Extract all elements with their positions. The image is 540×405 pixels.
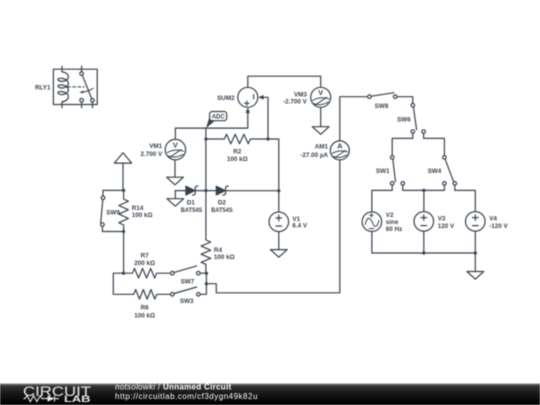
wire step to AM1 (206, 160, 339, 293)
voltmeter VM3 (311, 87, 331, 107)
svg-text:SW4: SW4 (428, 168, 442, 175)
svg-text:ADC: ADC (212, 114, 226, 120)
svg-text:BAT54S: BAT54S (211, 207, 233, 214)
svg-text:-120 V: -120 V (489, 223, 508, 230)
resistor R2 (206, 134, 279, 212)
svg-text:2.700 V: 2.700 V (140, 151, 163, 158)
wire SW6 right throw to SW4 (424, 133, 445, 155)
svg-text:A: A (337, 142, 343, 151)
wire SW4 left throw to node (424, 185, 445, 190)
svg-text:D1: D1 (187, 199, 196, 206)
wire flag to node (122, 163, 124, 190)
wire node to SW9 (103, 190, 124, 196)
wire SW8 to SW6 (397, 97, 413, 104)
junction dots (122, 137, 477, 285)
resistor R6 (134, 290, 171, 300)
source V2 (sine) (362, 212, 382, 232)
wire SW1 right throw to node (403, 185, 424, 190)
summer SUM2 (238, 87, 258, 107)
wire R2 right node up to SUM2 minus input (263, 97, 268, 139)
source V1 (269, 212, 289, 232)
svg-text:LAB: LAB (64, 394, 91, 405)
diode D2 (schottky) (206, 186, 279, 195)
source V4 (466, 212, 486, 232)
resistor R14 (119, 190, 129, 231)
logo zigzag diode glyph (24, 396, 60, 402)
svg-text:-27.00 µA: -27.00 µA (300, 152, 328, 159)
svg-text:100 kΩ: 100 kΩ (134, 312, 155, 319)
bottom rail V2 V3 V4 (372, 232, 475, 254)
wire SUM2 top to VM3 (248, 76, 321, 87)
wire R14 bottom down (123, 232, 125, 274)
voltmeter VM1 (165, 128, 185, 160)
ammeter AM1 (330, 97, 367, 160)
arrowhead into SUM2 + (246, 108, 251, 113)
ground under VM3 (312, 127, 329, 135)
svg-text:100 kΩ: 100 kΩ (132, 212, 153, 219)
svg-text:-2.700 V: -2.700 V (283, 99, 308, 106)
switch SW6 (SPDT) (411, 103, 425, 133)
svg-text:D2: D2 (218, 199, 227, 206)
svg-text:SW9: SW9 (106, 210, 120, 217)
svg-text:200 kΩ: 200 kΩ (134, 260, 155, 267)
svg-text:V4: V4 (489, 215, 497, 222)
svg-text:SW6: SW6 (397, 117, 411, 124)
power flag triangle (up) (114, 153, 131, 163)
wire left jog to R6 row (113, 273, 133, 294)
svg-text:BAT54S: BAT54S (181, 207, 203, 214)
diode D1 (schottky) (175, 186, 206, 195)
switch SW8 (368, 93, 397, 99)
svg-text:SW7: SW7 (181, 278, 195, 285)
wire VM3 to ground (320, 107, 322, 126)
wire SW7 to R4 node (200, 272, 206, 274)
switch SW4 (SPDT) (443, 156, 457, 186)
ADC flag (206, 112, 227, 129)
svg-text:SW3: SW3 (180, 298, 194, 305)
ground under VM1 (167, 160, 184, 185)
wire V1 to ground (278, 232, 280, 250)
svg-text:notsolowki / Unnamed Circuit: notsolowki / Unnamed Circuit (115, 382, 231, 391)
wire SW6 left throw to SW1 (392, 133, 413, 155)
svg-text:120 V: 120 V (438, 223, 455, 230)
svg-text:100 kΩ: 100 kΩ (214, 254, 235, 261)
svg-text:SUM2: SUM2 (217, 95, 235, 102)
resistor R7 (123, 268, 170, 278)
svg-text:RLY1: RLY1 (35, 84, 51, 91)
wire SW4 right throw to V4 (455, 185, 476, 211)
relay RLY1 body (53, 66, 97, 108)
svg-text:V3: V3 (438, 215, 446, 222)
svg-text:R14: R14 (132, 205, 144, 212)
ground under V1 (270, 250, 287, 258)
svg-text:V: V (318, 88, 323, 97)
svg-text:AM1: AM1 (315, 143, 329, 150)
arrowhead into SUM2 right (258, 95, 263, 100)
svg-text:sine: sine (386, 219, 399, 226)
switch SW3 (171, 287, 201, 296)
switch SW9 (101, 196, 105, 226)
svg-text:VM1: VM1 (149, 143, 162, 150)
wire VM1/ADC to SUM2 plus input (175, 113, 247, 128)
switch SW7 (171, 266, 201, 275)
svg-text:VM3: VM3 (294, 92, 307, 99)
ground at D1 anode (167, 191, 184, 207)
switch SW1 (SPDT) (390, 156, 404, 186)
ground under rail (467, 272, 484, 280)
wire SW3 up to junction (200, 273, 206, 294)
svg-text:V2: V2 (386, 212, 394, 219)
wire SW1 left throw to V2 (372, 185, 392, 212)
svg-text:R6: R6 (141, 305, 150, 312)
svg-text:60 Hz: 60 Hz (386, 226, 402, 233)
source V3 (414, 212, 434, 232)
resistor R4 (201, 191, 211, 274)
wire node to V3 (423, 190, 425, 211)
svg-text:100 kΩ: 100 kΩ (227, 156, 248, 163)
svg-text:R2: R2 (233, 148, 242, 155)
svg-text:V: V (173, 141, 178, 150)
svg-text:6.4 V: 6.4 V (292, 223, 308, 230)
wire SW9 to node (102, 226, 123, 231)
main vertical wire ADC node to D junction (205, 128, 207, 191)
svg-text:R7: R7 (141, 253, 150, 260)
svg-text:SW8: SW8 (375, 103, 389, 110)
svg-text:SW1: SW1 (376, 168, 390, 175)
svg-text:http://circuitlab.com/cf3dygn4: http://circuitlab.com/cf3dygn49k82u (115, 392, 258, 401)
